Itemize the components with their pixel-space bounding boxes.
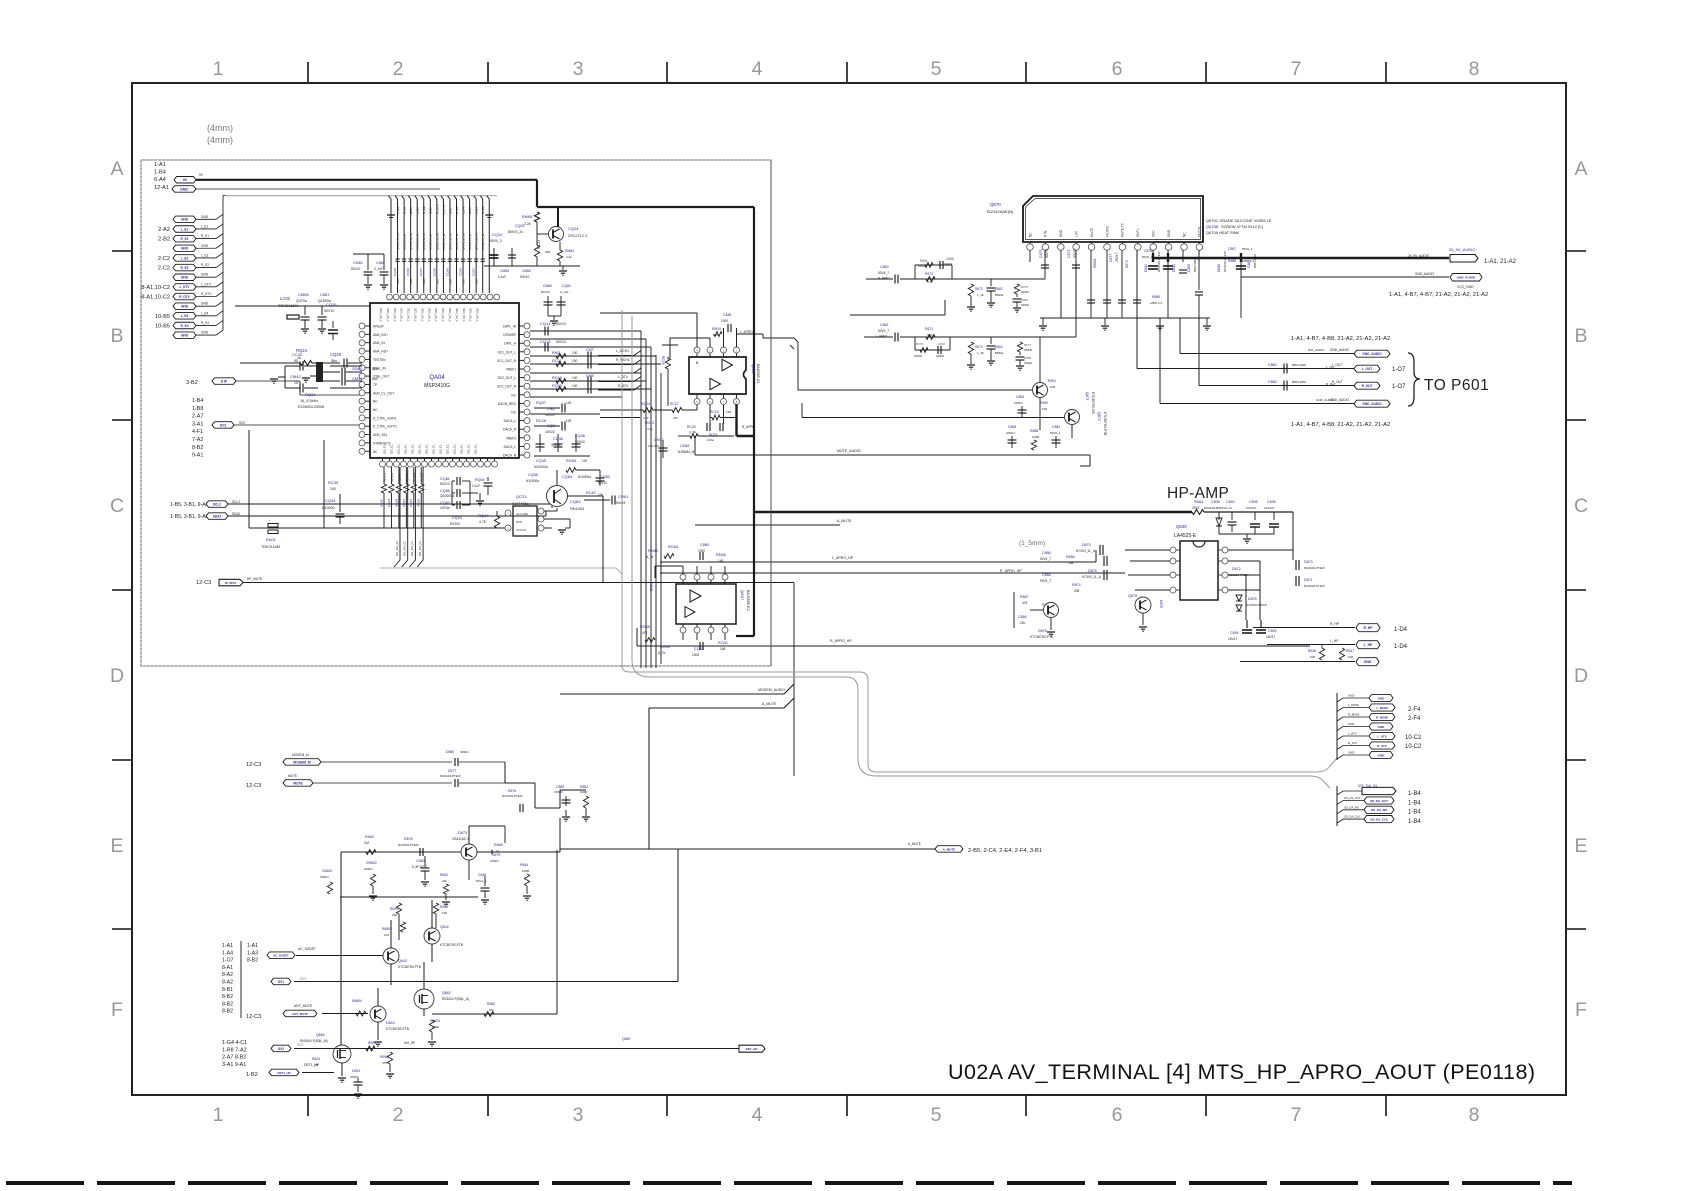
- svg-text:L_Out: L_Out: [1326, 365, 1334, 369]
- svg-text:CQ85: CQ85: [440, 489, 450, 493]
- svg-text:RC28: RC28: [536, 419, 546, 423]
- svg-text:I2S_CL: I2S_CL: [460, 444, 464, 454]
- svg-text:N10000a: N10000a: [578, 475, 591, 479]
- svg-text:R_E4: R_E4: [455, 206, 459, 214]
- svg-text:R862: R862: [580, 785, 588, 789]
- svg-text:1-A3: 1-A3: [247, 950, 258, 956]
- svg-text:D678: D678: [404, 837, 413, 841]
- svg-text:1-B4: 1-B4: [1408, 810, 1421, 816]
- svg-text:OPEN: OPEN: [1006, 431, 1015, 435]
- svg-text:GR602: GR602: [366, 861, 377, 865]
- svg-text:R676: R676: [916, 342, 924, 346]
- svg-text:R661: R661: [920, 259, 928, 263]
- svg-text:QF6V2_2u_M: QF6V2_2u_M: [422, 233, 426, 250]
- svg-text:MSP3410G: MSP3410G: [424, 383, 450, 389]
- svg-text:RGA5: RGA5: [566, 459, 576, 463]
- svg-text:100B: 100B: [1032, 435, 1039, 439]
- svg-text:498: 498: [545, 250, 550, 254]
- svg-text:C871: C871: [1067, 249, 1071, 258]
- svg-text:50V4_7: 50V4_7: [1040, 579, 1051, 583]
- svg-text:GND: GND: [201, 302, 209, 306]
- svg-text:R664: R664: [520, 863, 528, 867]
- svg-text:L_E4: L_E4: [201, 311, 209, 315]
- svg-text:SCL2: SCL2: [232, 500, 240, 504]
- svg-text:(1_5mm): (1_5mm): [1019, 540, 1045, 547]
- svg-text:CQ28: CQ28: [330, 352, 342, 357]
- svg-text:8-B2: 8-B2: [222, 994, 233, 1000]
- svg-text:1-A1, 4-B7, 4-B7, 21-A2, 21-A2: 1-A1, 4-B7, 4-B7, 21-A2, 21-A2, 21-A2: [1389, 292, 1488, 298]
- svg-text:G6502: G6502: [322, 869, 332, 873]
- svg-text:R_HP: R_HP: [1363, 626, 1373, 630]
- svg-text:I2S_DA_OUT: I2S_DA_OUT: [1370, 799, 1388, 803]
- svg-text:148: 148: [726, 410, 731, 414]
- svg-text:C865: C865: [1024, 356, 1032, 360]
- svg-text:B4563_2u_M: B4563_2u_M: [403, 233, 407, 250]
- svg-text:100: 100: [448, 279, 452, 284]
- svg-text:1-R8 7-A2: 1-R8 7-A2: [222, 1047, 247, 1053]
- svg-text:CM65: CM65: [353, 261, 363, 265]
- svg-text:C867: C867: [938, 342, 946, 346]
- svg-text:4470a: 4470a: [440, 506, 450, 510]
- svg-text:4: 4: [752, 1104, 763, 1126]
- svg-text:Q670B: Q670B: [1206, 224, 1219, 229]
- svg-text:2-A2: 2-A2: [158, 227, 170, 233]
- svg-text:GND: GND: [468, 207, 472, 215]
- svg-text:3_3E: 3_3E: [689, 430, 696, 434]
- svg-text:L_MONI: L_MONI: [1376, 706, 1388, 710]
- svg-text:RG45: RG45: [640, 625, 650, 629]
- svg-text:A: A: [1574, 158, 1587, 180]
- svg-text:10: 10: [294, 381, 298, 385]
- svg-text:L_DTV: L_DTV: [442, 205, 446, 214]
- svg-text:RQ38: RQ38: [394, 499, 398, 507]
- svg-text:2-A7: 2-A7: [192, 414, 203, 420]
- svg-text:L_ATV: L_ATV: [1377, 734, 1386, 738]
- svg-text:22E: 22E: [392, 913, 397, 917]
- svg-text:R8804: R8804: [1093, 258, 1097, 268]
- svg-text:RCA7: RCA7: [586, 491, 596, 495]
- svg-text:C896: C896: [1267, 500, 1276, 504]
- svg-text:OPEN: OPEN: [460, 750, 469, 754]
- svg-text:B4563_2u_M: B4563_2u_M: [442, 233, 446, 250]
- svg-text:8-A2: 8-A2: [222, 980, 233, 986]
- svg-text:DACA_L: DACA_L: [504, 445, 517, 449]
- svg-text:DACA_R: DACA_R: [503, 454, 517, 458]
- svg-text:SC1_IN_L: SC1_IN_L: [386, 308, 390, 322]
- svg-text:OPEN: OPEN: [364, 867, 373, 871]
- svg-text:I2S_CL: I2S_CL: [411, 444, 415, 454]
- svg-text:C: C: [1574, 495, 1588, 517]
- svg-text:D_CTRL_I/O/TO: D_CTRL_I/O/TO: [373, 425, 397, 429]
- svg-text:100: 100: [566, 419, 572, 423]
- svg-text:L_E1: L_E1: [396, 207, 400, 214]
- svg-text:C880: C880: [700, 543, 709, 547]
- svg-text:GND_AUDIO: GND_AUDIO: [1362, 352, 1382, 356]
- svg-text:8-A1,10-C2: 8-A1,10-C2: [141, 295, 170, 301]
- svg-text:GND: GND: [181, 218, 189, 222]
- svg-text:C884: C884: [376, 261, 385, 265]
- svg-text:A_7k: A_7k: [646, 555, 654, 559]
- svg-text:R680: R680: [487, 1002, 495, 1006]
- svg-text:R695: R695: [368, 1041, 376, 1045]
- svg-text:560: 560: [372, 377, 378, 381]
- svg-text:D676: D676: [508, 789, 516, 793]
- svg-text:1-A1, 21-A2: 1-A1, 21-A2: [1484, 259, 1517, 265]
- svg-text:Q670C GRADE SILICONE VG853 1: Q670C GRADE SILICONE VG853 1E: [1206, 218, 1272, 223]
- svg-text:AC_DZDET: AC_DZDET: [273, 953, 289, 957]
- svg-text:4,7E: 4,7E: [479, 520, 487, 524]
- svg-text:Q660: Q660: [316, 1033, 325, 1037]
- svg-text:100: 100: [572, 359, 578, 363]
- svg-text:2SA1162-Y: 2SA1162-Y: [452, 837, 470, 841]
- svg-text:D875: D875: [1159, 600, 1163, 608]
- svg-text:R_Out: R_Out: [1326, 382, 1335, 386]
- svg-text:SC1_OUT_L: SC1_OUT_L: [498, 350, 516, 354]
- svg-text:1/8W 2,2: 1/8W 2,2: [1242, 259, 1254, 263]
- svg-text:C894: C894: [1230, 631, 1239, 635]
- svg-text:A_7k: A_7k: [658, 651, 666, 655]
- svg-text:CM81: CM81: [680, 444, 690, 448]
- svg-text:GND: GND: [1059, 229, 1063, 237]
- svg-text:4(p)100: 4(p)100: [382, 472, 386, 482]
- svg-text:GND: GND: [201, 244, 209, 248]
- svg-text:OPEN: OPEN: [554, 790, 563, 794]
- svg-text:10V470: 10V470: [1246, 506, 1257, 510]
- svg-text:D845: D845: [1217, 264, 1221, 272]
- svg-text:CQ45: CQ45: [536, 459, 546, 463]
- svg-text:RM48: RM48: [716, 553, 726, 557]
- svg-text:R675: R675: [1021, 285, 1029, 289]
- svg-text:BA4558F-E2: BA4558F-E2: [756, 364, 760, 384]
- svg-text:RC0100-PTE/P: RC0100-PTE/P: [398, 843, 419, 847]
- svg-text:100: 100: [566, 401, 572, 405]
- svg-text:2947: 2947: [1192, 506, 1200, 510]
- svg-text:RC0100-PTE/P: RC0100-PTE/P: [1223, 251, 1227, 272]
- svg-text:8-A1: 8-A1: [222, 965, 233, 971]
- svg-text:1: 1: [213, 1104, 224, 1126]
- svg-text:5: 5: [931, 58, 942, 80]
- svg-text:1/8W 2,2: 1/8W 2,2: [1150, 301, 1162, 305]
- svg-text:D870: D870: [1082, 543, 1091, 547]
- svg-text:R_MCH1: R_MCH1: [616, 358, 630, 362]
- svg-text:6: 6: [1112, 58, 1123, 80]
- svg-text:D862: D862: [995, 287, 1003, 291]
- svg-text:8-B2: 8-B2: [222, 1009, 233, 1015]
- svg-text:47k: 47k: [673, 416, 678, 420]
- svg-text:C878: C878: [1144, 249, 1152, 253]
- svg-text:RCA0: RCA0: [718, 641, 728, 645]
- svg-text:SC1_IN_L: SC1_IN_L: [420, 308, 424, 322]
- svg-text:(4mm): (4mm): [207, 123, 233, 133]
- svg-text:MODEM_M: MODEM_M: [293, 760, 310, 764]
- svg-text:QA04: QA04: [429, 375, 445, 381]
- svg-text:VCC_GND: VCC_GND: [1457, 285, 1474, 289]
- svg-text:CM41: CM41: [352, 376, 363, 381]
- svg-text:L_E2: L_E2: [416, 207, 420, 214]
- svg-text:47k: 47k: [489, 1008, 494, 1012]
- svg-text:0_1uF: 0_1uF: [374, 267, 383, 271]
- svg-text:7: 7: [1291, 1104, 1302, 1126]
- svg-text:4,7k: 4,7k: [647, 427, 653, 431]
- svg-text:C860: C860: [880, 265, 889, 269]
- svg-text:GND_AUDIO: GND_AUDIO: [1457, 276, 1476, 280]
- svg-text:R_E1: R_E1: [403, 206, 407, 214]
- svg-text:TO P601: TO P601: [1424, 377, 1489, 394]
- svg-text:RQ32: RQ32: [409, 499, 413, 507]
- svg-text:R662: R662: [440, 873, 448, 877]
- svg-text:GND_AUDIO: GND_AUDIO: [1316, 398, 1335, 402]
- svg-text:SV2: SV2: [220, 423, 227, 427]
- svg-text:I2S_DA_WS: I2S_DA_WS: [1371, 808, 1387, 812]
- svg-text:R2200: R2200: [450, 522, 460, 526]
- svg-text:2SC2712-Y: 2SC2712-Y: [568, 234, 588, 238]
- svg-text:SCREW 4TTM 3X10 [C]: SCREW 4TTM 3X10 [C]: [1221, 224, 1263, 229]
- svg-text:RC16: RC16: [661, 356, 665, 365]
- svg-text:R673: R673: [975, 345, 983, 349]
- svg-text:R_E1: R_E1: [181, 237, 189, 241]
- svg-text:9V0_AUDIO: 9V0_AUDIO: [1308, 348, 1325, 352]
- svg-text:Q630: Q630: [1176, 524, 1187, 529]
- svg-text:10V 47u: 10V 47u: [648, 444, 660, 448]
- svg-text:R_DTV: R_DTV: [201, 292, 212, 296]
- svg-text:478: 478: [382, 1061, 387, 1065]
- svg-text:U02A AV_TERMINAL [4] MTS_HP: U02A AV_TERMINAL [4] MTS_HP_APRO_AOUT (P…: [948, 1060, 1535, 1084]
- svg-text:SC1_IN_L: SC1_IN_L: [379, 308, 383, 322]
- svg-text:16V47: 16V47: [1266, 635, 1275, 639]
- svg-text:1-O7: 1-O7: [1392, 367, 1406, 373]
- svg-text:22k: 22k: [442, 879, 447, 883]
- svg-text:A_MUTE: A_MUTE: [762, 702, 777, 706]
- svg-text:MODEM_M: MODEM_M: [292, 753, 309, 757]
- svg-text:108: 108: [1050, 385, 1055, 389]
- svg-text:50V10: 50V10: [598, 481, 607, 485]
- svg-text:RC18: RC18: [649, 582, 653, 591]
- svg-text:R_ATV: R_ATV: [1348, 741, 1357, 745]
- svg-text:100: 100: [461, 279, 465, 284]
- svg-text:R684: R684: [1194, 500, 1203, 504]
- svg-text:R624: R624: [312, 1057, 320, 1061]
- svg-text:D863: D863: [995, 345, 1003, 349]
- svg-text:SC1_IN_L: SC1_IN_L: [441, 308, 445, 322]
- svg-text:ANA_IN-: ANA_IN-: [373, 341, 386, 345]
- svg-text:B650a: B650a: [995, 293, 1004, 297]
- svg-text:SDA2: SDA2: [232, 512, 241, 516]
- svg-text:D871: D871: [1304, 578, 1313, 582]
- svg-text:478: 478: [1022, 601, 1028, 605]
- svg-text:F: F: [1575, 999, 1587, 1021]
- svg-text:R_MONI: R_MONI: [1348, 713, 1359, 717]
- svg-text:FILT(R): FILT(R): [1105, 226, 1109, 237]
- svg-text:100: 100: [409, 279, 413, 284]
- svg-text:VREF1: VREF1: [506, 368, 517, 372]
- svg-text:HP_MUTE: HP_MUTE: [247, 577, 262, 581]
- svg-text:CM7: CM7: [586, 348, 594, 352]
- svg-text:C880: C880: [416, 859, 425, 863]
- svg-text:56n: 56n: [372, 367, 378, 371]
- svg-text:CQ36: CQ36: [458, 268, 462, 276]
- svg-text:C886: C886: [1042, 551, 1051, 555]
- svg-text:R646: R646: [1308, 649, 1316, 653]
- svg-text:SV2: SV2: [297, 1043, 304, 1047]
- svg-text:8: 8: [1469, 1104, 1480, 1126]
- svg-text:1/8: 1/8: [314, 1063, 319, 1067]
- svg-text:1-A4: 1-A4: [222, 950, 233, 956]
- svg-text:BA4558F-E2: BA4558F-E2: [746, 590, 750, 611]
- svg-text:Q662: Q662: [442, 991, 451, 995]
- svg-text:GND: GND: [1348, 751, 1354, 755]
- svg-text:50V10: 50V10: [324, 309, 334, 313]
- svg-text:10-C2: 10-C2: [1405, 735, 1422, 741]
- svg-text:R856: R856: [1066, 555, 1075, 559]
- svg-text:8-A1,10-C2: 8-A1,10-C2: [141, 285, 170, 291]
- svg-text:B50V0_2u: B50V0_2u: [508, 230, 523, 234]
- svg-text:QF6V2_2u_M: QF6V2_2u_M: [475, 233, 479, 250]
- svg-text:RC15: RC15: [710, 410, 719, 414]
- svg-text:26_9V_AUDIO: 26_9V_AUDIO: [1408, 254, 1430, 258]
- svg-text:QF6V2_2u_M: QF6V2_2u_M: [448, 233, 452, 250]
- svg-text:I2S_DA_CLK: I2S_DA_CLK: [1344, 815, 1360, 819]
- svg-text:C868: C868: [1008, 425, 1016, 429]
- svg-text:3: 3: [573, 1104, 584, 1126]
- svg-text:L_ATV: L_ATV: [1348, 732, 1357, 736]
- svg-text:16V47: 16V47: [1228, 637, 1237, 641]
- svg-text:CQ55: CQ55: [528, 473, 538, 477]
- svg-text:50V4_7: 50V4_7: [1040, 557, 1051, 561]
- svg-text:1-A1, 4-B7, 4-B8, 21-A2, 21-A2: 1-A1, 4-B7, 4-B8, 21-A2, 21-A2, 21-A2: [1291, 336, 1390, 342]
- svg-text:R_ATV: R_ATV: [1377, 744, 1387, 748]
- svg-text:B50V1000: B50V1000: [1193, 258, 1197, 272]
- svg-text:RM92: RM92: [390, 907, 399, 911]
- svg-text:CM65: CM65: [500, 269, 509, 273]
- svg-text:I2S_CL: I2S_CL: [432, 444, 436, 454]
- svg-text:B50V1000: B50V1000: [1292, 363, 1306, 367]
- svg-text:N73V0_1L_A: N73V0_1L_A: [1082, 575, 1102, 579]
- svg-text:SC1_IN_L: SC1_IN_L: [427, 308, 431, 322]
- svg-text:D: D: [110, 665, 124, 687]
- svg-text:B4563_2u_M: B4563_2u_M: [481, 233, 485, 250]
- svg-text:SC1_IN_L: SC1_IN_L: [407, 308, 411, 322]
- svg-text:4-F1: 4-F1: [192, 429, 203, 435]
- svg-text:R672: R672: [975, 287, 983, 291]
- svg-text:L_HP: L_HP: [1364, 643, 1373, 647]
- svg-text:108: 108: [1042, 407, 1047, 411]
- svg-text:SDA2: SDA2: [213, 514, 222, 518]
- svg-text:B4563_2u_M: B4563_2u_M: [455, 233, 459, 250]
- svg-text:(4mm): (4mm): [207, 135, 233, 145]
- svg-text:D841: D841: [1172, 264, 1176, 272]
- svg-text:12-C3: 12-C3: [196, 580, 211, 586]
- svg-text:R6603: R6603: [430, 1019, 440, 1023]
- svg-text:Q872: Q872: [1097, 412, 1101, 421]
- svg-text:GND: GND: [1348, 722, 1354, 726]
- svg-text:D673: D673: [458, 831, 467, 835]
- svg-text:A_MUTE: A_MUTE: [908, 842, 921, 846]
- svg-text:Vout GND: Vout GND: [516, 512, 528, 516]
- svg-text:L IN: L IN: [1075, 231, 1079, 237]
- svg-text:16_470kHz: 16_470kHz: [300, 399, 318, 403]
- svg-text:100: 100: [396, 279, 400, 284]
- svg-text:CQ24: CQ24: [452, 516, 462, 520]
- svg-text:D878: D878: [1038, 629, 1047, 633]
- svg-text:R_APRO_HP: R_APRO_HP: [1000, 569, 1022, 573]
- svg-text:CQ14: CQ14: [540, 321, 551, 326]
- svg-text:108: 108: [1310, 655, 1315, 659]
- svg-text:100B: 100B: [522, 869, 529, 873]
- svg-text:50V10: 50V10: [556, 322, 566, 326]
- svg-text:I2S_CL: I2S_CL: [404, 444, 408, 454]
- svg-text:I2S_CL: I2S_CL: [383, 444, 387, 454]
- svg-text:MUTE_AUDIO: MUTE_AUDIO: [837, 449, 861, 453]
- svg-text:MUTE: MUTE: [293, 781, 303, 785]
- svg-text:50V10: 50V10: [351, 267, 360, 271]
- svg-text:RC0100-PTE/P: RC0100-PTE/P: [1228, 573, 1249, 577]
- svg-text:LC02: LC02: [280, 296, 291, 301]
- svg-text:SC1_OUT_R: SC1_OUT_R: [497, 359, 516, 363]
- svg-text:KTC3875S-PTB: KTC3875S-PTB: [386, 1027, 409, 1031]
- svg-text:108: 108: [442, 911, 447, 915]
- svg-text:SC1_IN_L: SC1_IN_L: [400, 308, 404, 322]
- svg-text:2-C2: 2-C2: [158, 256, 170, 262]
- svg-text:SC1_IN_L: SC1_IN_L: [455, 308, 459, 322]
- svg-text:TDK2116M: TDK2116M: [278, 303, 298, 308]
- svg-text:L_E4: L_E4: [461, 207, 465, 214]
- svg-text:D643: D643: [386, 1021, 395, 1025]
- svg-text:50V70: 50V70: [1073, 249, 1077, 258]
- svg-text:B650a: B650a: [995, 351, 1004, 355]
- svg-text:RC0100-PTE/P: RC0100-PTE/P: [1304, 584, 1325, 588]
- svg-text:I2S_CL: I2S_CL: [418, 444, 422, 454]
- svg-text:R857: R857: [1020, 595, 1029, 599]
- svg-text:2: 2: [393, 58, 404, 80]
- svg-text:DACA_L: DACA_L: [504, 419, 517, 423]
- svg-text:B: B: [110, 325, 123, 347]
- svg-text:OPEN: OPEN: [1021, 303, 1029, 307]
- svg-text:1-D4: 1-D4: [1394, 644, 1408, 650]
- svg-text:I2S_DA_CL: I2S_DA_CL: [410, 540, 414, 556]
- svg-text:CQ27: CQ27: [472, 268, 476, 276]
- svg-text:R673: R673: [925, 272, 933, 276]
- svg-text:HP_MUTE: HP_MUTE: [225, 582, 237, 585]
- svg-text:L_E2: L_E2: [181, 256, 189, 260]
- svg-text:1-B4: 1-B4: [1408, 791, 1421, 797]
- svg-text:10-B5: 10-B5: [155, 314, 170, 320]
- svg-text:50V13: 50V13: [541, 290, 550, 294]
- svg-text:C892: C892: [1268, 629, 1277, 633]
- svg-text:7: 7: [1291, 58, 1302, 80]
- svg-text:4: 4: [752, 58, 763, 80]
- svg-text:Q642: Q642: [440, 925, 449, 929]
- svg-text:OPEN: OPEN: [320, 875, 329, 879]
- svg-text:30V10: 30V10: [575, 440, 585, 444]
- svg-text:100: 100: [572, 384, 578, 388]
- svg-text:RGA4: RGA4: [668, 545, 678, 549]
- svg-text:QF6V2_2u_M: QF6V2_2u_M: [461, 233, 465, 250]
- svg-text:B: B: [1574, 325, 1587, 347]
- svg-text:C864: C864: [1021, 298, 1029, 302]
- svg-text:C888: C888: [946, 257, 954, 261]
- svg-text:R_APRO: R_APRO: [742, 425, 756, 429]
- svg-text:R_APRO_HP: R_APRO_HP: [830, 639, 852, 643]
- svg-text:L_MCH1: L_MCH1: [616, 349, 629, 353]
- svg-text:KTC3875G-PTE: KTC3875G-PTE: [1030, 635, 1053, 639]
- svg-text:GND_AUDIO: GND_AUDIO: [1415, 272, 1434, 276]
- svg-text:L_DTV: L_DTV: [179, 285, 190, 289]
- svg-text:12-C3: 12-C3: [246, 783, 261, 789]
- svg-text:C: C: [110, 495, 124, 517]
- svg-text:QF6V2_2u_M: QF6V2_2u_M: [435, 233, 439, 250]
- svg-text:RG13: RG13: [645, 421, 654, 425]
- svg-text:I2S_CL: I2S_CL: [425, 444, 429, 454]
